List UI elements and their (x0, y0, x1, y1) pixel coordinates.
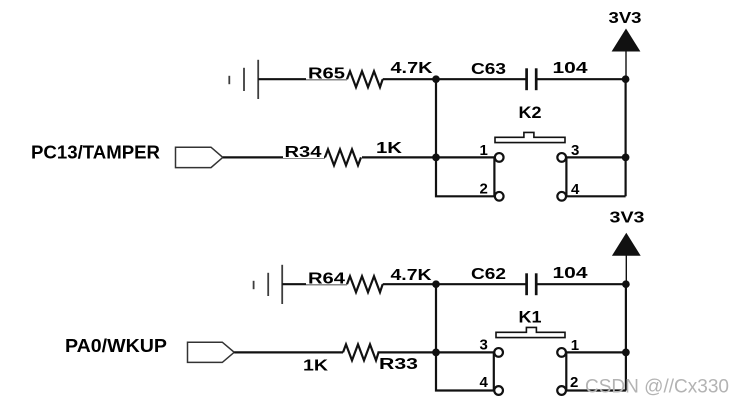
switch K1 button bar (496, 327, 565, 337)
svg-text:3V3: 3V3 (610, 209, 645, 226)
svg-text:R64: R64 (308, 271, 345, 288)
wire R34 to node A (362, 156, 436, 158)
wire pin1-pin2 link (493, 157, 495, 196)
svg-text:R33: R33 (379, 356, 418, 373)
junction node B (switch row) (432, 349, 440, 357)
wire 3V3 rail down (bottom circuit) (625, 284, 627, 390)
switch K2 button bar (495, 132, 565, 142)
wire node A down to switch row (435, 79, 437, 157)
port PA0/WKUP (188, 342, 235, 362)
wire pin3-pin4 link (K1) (493, 352, 495, 390)
wire port to R34 (223, 156, 325, 158)
svg-text:4.7K: 4.7K (391, 267, 433, 284)
pin 1 circle (K1) (557, 348, 566, 357)
pin 4 circle (K1) (494, 386, 503, 395)
wire node B down to switch row (435, 284, 437, 352)
svg-text:2: 2 (570, 374, 578, 391)
wire R65 to node A (383, 78, 436, 80)
svg-text:R65: R65 (308, 66, 345, 83)
wire C62 to 3V3 rail (536, 283, 626, 285)
svg-text:104: 104 (553, 60, 588, 77)
pin 1 circle (K2) (495, 153, 504, 162)
svg-text:3V3: 3V3 (609, 10, 642, 27)
wire pin1-pin2 link (K1) (565, 352, 567, 390)
junction 3V3 rail top row (622, 75, 630, 83)
power 3V3 symbol (bottom) (613, 234, 640, 285)
svg-text:3: 3 (571, 142, 579, 159)
label R34 (283, 144, 324, 161)
svg-text:1K: 1K (376, 140, 403, 157)
pin 3 circle (K1) (494, 348, 503, 357)
junction node A (switch row) (432, 154, 440, 162)
power 3V3 symbol (top) (613, 29, 640, 79)
wire right loop (pin 2 to rail bottom) (566, 389, 626, 391)
svg-text:CSDN @//Cx330: CSDN @//Cx330 (585, 377, 729, 398)
wire C63 to 3V3 rail (536, 78, 625, 80)
junction 3V3 rail supply row (bottom) (622, 280, 630, 288)
ground symbol (top circuit) (229, 60, 258, 99)
wire pin 3 to 3V3 rail (566, 156, 625, 158)
port PC13/TAMPER (176, 147, 223, 167)
wire left loop (node A down to pin 2) (436, 157, 495, 196)
wire pin 1 to 3V3 rail (K1) (566, 351, 626, 353)
wire pin3-pin4 link (565, 157, 567, 196)
wire right loop (pin 4 to rail bottom) (566, 195, 625, 197)
label R65 (306, 66, 347, 83)
wire node A to C63 (436, 78, 526, 80)
svg-text:R34: R34 (285, 144, 322, 161)
wire node B to C62 (436, 283, 526, 285)
wire node A to pin 1 (436, 156, 495, 158)
svg-text:104: 104 (553, 265, 588, 282)
resistor R65 (347, 71, 383, 87)
pin 2 circle (K2) (495, 192, 504, 201)
svg-text:3: 3 (480, 337, 488, 354)
pin 3 circle (K2) (557, 153, 566, 162)
svg-text:4.7K: 4.7K (391, 60, 434, 77)
svg-text:1K: 1K (303, 358, 329, 375)
svg-text:K1: K1 (519, 308, 542, 327)
wire left loop (node B down to pin 4) (436, 352, 494, 390)
svg-text:K2: K2 (519, 103, 542, 122)
junction 3V3 rail switch row (bottom) (622, 349, 630, 357)
resistor R34 (325, 149, 361, 165)
label R64 (306, 271, 347, 288)
wire ground to R64 (282, 283, 347, 285)
wire port to R33 (234, 351, 343, 353)
resistor R33 (343, 344, 379, 360)
svg-text:1: 1 (571, 337, 579, 354)
svg-text:2: 2 (480, 181, 488, 198)
junction node A (top row) (432, 75, 440, 83)
capacitor C62 (527, 273, 537, 295)
capacitor C63 (527, 68, 537, 90)
svg-text:C63: C63 (471, 61, 506, 78)
wire ground to R65 (258, 78, 347, 80)
svg-text:C62: C62 (471, 266, 506, 283)
wire 3V3 rail down (top circuit) (624, 79, 626, 196)
svg-text:1: 1 (480, 142, 488, 159)
svg-text:PC13/TAMPER: PC13/TAMPER (31, 143, 160, 163)
pin 2 circle (K1) (557, 386, 566, 395)
svg-text:PA0/WKUP: PA0/WKUP (65, 336, 167, 356)
resistor R64 (347, 276, 383, 292)
pin 4 circle (K2) (557, 192, 566, 201)
junction 3V3 rail switch row (622, 154, 630, 162)
wire R64 to node B (383, 283, 436, 285)
junction node B (supply row) (432, 280, 440, 288)
svg-text:4: 4 (480, 374, 489, 391)
wire R33 to node B (378, 351, 437, 353)
wire node B to pin 3 (436, 351, 494, 353)
ground symbol (bottom circuit) (254, 265, 283, 304)
